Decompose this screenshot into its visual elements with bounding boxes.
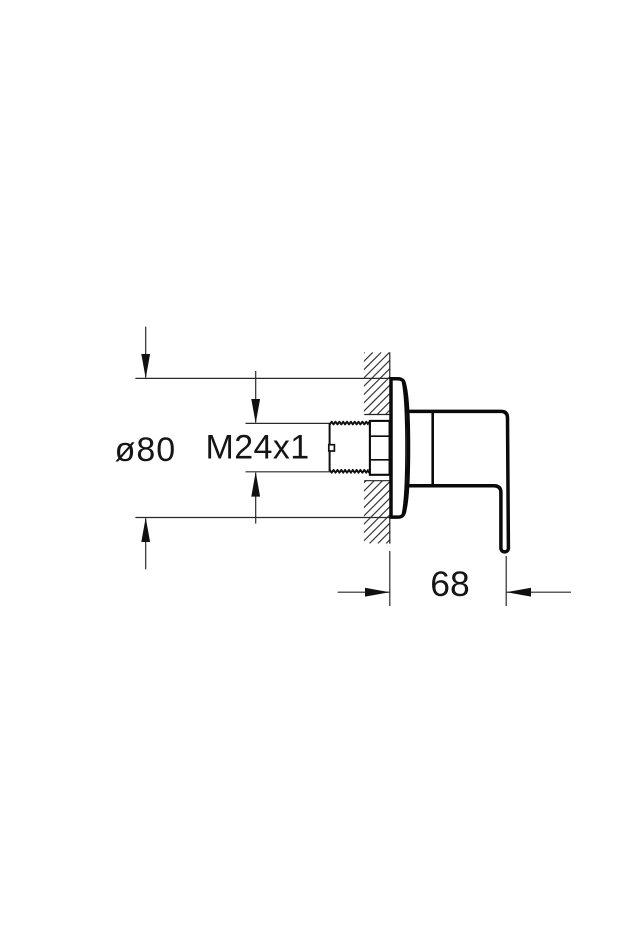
- svg-text:ø80: ø80: [115, 431, 177, 469]
- svg-text:M24x1: M24x1: [206, 428, 310, 466]
- svg-text:68: 68: [430, 564, 470, 604]
